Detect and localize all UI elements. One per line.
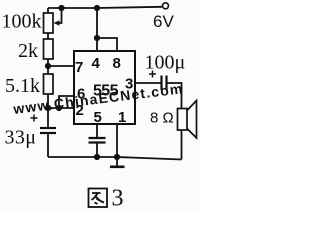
wire 5.1k to node link (47, 94, 49, 128)
svg-text:8 Ω: 8 Ω (150, 110, 174, 127)
svg-text:33μ: 33μ (5, 127, 37, 149)
svg-text:4: 4 (92, 55, 101, 72)
node chain-pin2 junction (45, 105, 51, 111)
node pin1 ground junction (114, 154, 120, 160)
wire pin2 (48, 107, 74, 109)
node pin8 branch junction (94, 35, 100, 41)
svg-text:100k: 100k (2, 11, 42, 33)
resistor R2 5.1k body (44, 74, 54, 94)
wire pin6 riser (59, 96, 74, 108)
svg-text:1: 1 (118, 109, 126, 126)
svg-text:100μ: 100μ (145, 52, 186, 74)
caption tu (figure) glyph drawn manually (89, 189, 108, 208)
capacitor C2 pin5 plates (89, 138, 106, 143)
potentiometer wiper arrowhead (54, 20, 60, 25)
node wiper-rail junction (58, 5, 64, 11)
wire speaker bottom (181, 130, 183, 160)
wire pin8 branch (97, 38, 117, 51)
wire top rail (48, 7, 162, 8)
wire bottom rail (48, 157, 182, 160)
node pin6 branch junction (56, 105, 62, 111)
svg-text:3: 3 (125, 76, 133, 93)
wire pin5 upper (96, 124, 98, 138)
svg-text:2k: 2k (18, 40, 38, 62)
svg-text:2: 2 (76, 102, 84, 119)
capacitor C1 plus sign (31, 115, 38, 122)
svg-text:8: 8 (113, 55, 121, 72)
node rail-pin4 junction (94, 5, 100, 11)
wire 2k to 5.1k link (47, 59, 49, 74)
wire pin3 output (135, 82, 161, 84)
svg-text:5.1k: 5.1k (5, 75, 40, 97)
wire pin1 (116, 124, 118, 157)
svg-text:6: 6 (77, 86, 85, 103)
svg-text:7: 7 (75, 59, 83, 76)
svg-text:6V: 6V (153, 12, 174, 31)
speaker BL (178, 101, 197, 139)
wire pot wiper to rail (56, 8, 62, 23)
wire cap to speaker top (167, 83, 182, 109)
wire 100k to 2k link (47, 33, 49, 39)
op-amp U1 555 IC box (74, 51, 135, 124)
svg-text:555: 555 (93, 83, 119, 100)
wire pin4 supply (96, 8, 98, 51)
node pin5 rail junction (94, 154, 100, 160)
capacitor C1 33u plates (40, 128, 56, 133)
node pin7 junction (45, 63, 51, 69)
wire pot top stub (47, 8, 49, 13)
svg-text:5: 5 (94, 109, 102, 126)
potentiometer RP 100k body (44, 13, 54, 33)
wire 33u to bottom rail (47, 133, 49, 157)
svg-text:3: 3 (112, 186, 124, 211)
ground (110, 157, 125, 167)
wire pin7 (48, 65, 74, 67)
wire pin5 cap to rail (96, 143, 98, 158)
battery terminal 6V (163, 3, 169, 9)
resistor R1 2k body (44, 39, 54, 59)
capacitor C3 100u plates (162, 76, 167, 91)
capacitor C3 plus sign (149, 71, 156, 78)
